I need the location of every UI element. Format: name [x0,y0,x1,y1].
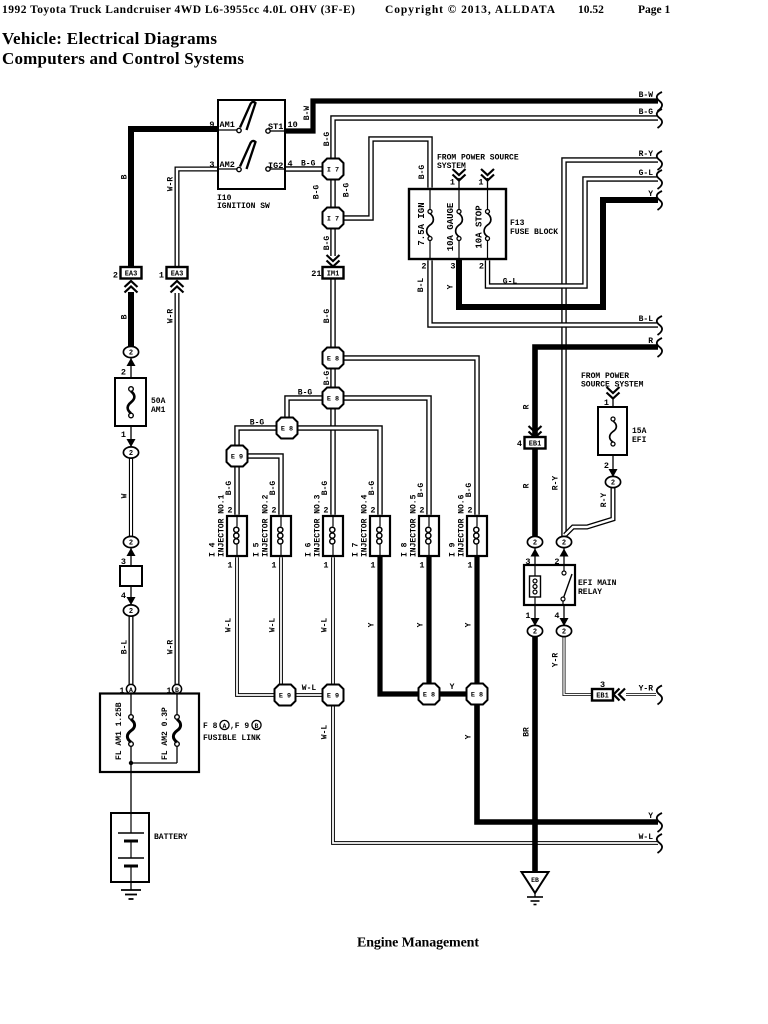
grid connector EB1 upper [525,437,546,449]
bus continuation curl W-L [657,834,662,853]
pin 2 label at INJECTOR NO.5 [419,506,424,516]
pin 1 label below 50A AM1 [121,430,126,440]
fuse 50A AM1 box [115,378,146,426]
wire stub: EFI relay pin 1 [534,605,536,626]
pin 1 label at INJECTOR NO.3 [323,561,328,571]
pin 2 label at INJECTOR NO.6 [467,506,472,516]
wire stub: fuse block feed 10A GAUGE [458,178,460,189]
caption: Engine Management [357,936,479,951]
svg-text:INJECTOR NO.1: INJECTOR NO.1 [218,494,227,557]
pin 1 label at fusible link B [166,686,171,696]
svg-text:B-G: B-G [418,165,427,180]
svg-text:1: 1 [370,561,375,571]
wire BR: EFI relay to ground EB [532,636,538,873]
ground below battery [121,882,141,899]
svg-text:2: 2 [533,540,537,548]
wire W-L: injector No.2 to E9 [279,557,283,685]
label F13 FUSE BLOCK [510,219,558,237]
pin 3 label above junction box [121,557,126,567]
svg-text:B-G: B-G [225,481,234,496]
svg-text:F13: F13 [510,219,525,228]
title: Vehicle Electrical Diagrams [2,29,217,48]
junction dot in fusible link box [129,761,133,765]
svg-text:G-L: G-L [503,278,518,287]
svg-text:2: 2 [113,271,118,281]
svg-text:B: B [255,723,259,730]
wire B-G: ignition IG2 to connector I7 [285,166,323,172]
wire label B-G horizontal at E9 branch [250,419,265,428]
injector INJECTOR NO.6 designator [449,542,458,557]
svg-text:F 8: F 8 [203,722,218,731]
svg-text:SOURCE SYSTEM: SOURCE SYSTEM [581,381,644,390]
wire Y: E8 down to right bus [477,704,658,822]
connector 2 oval at relay pin 4 [556,625,571,636]
svg-text:B-W: B-W [303,106,312,121]
injector INJECTOR NO.1 coil [234,516,239,556]
svg-text:Y: Y [447,284,456,289]
pin 4 label below junction box [121,591,126,601]
svg-text:B-G: B-G [323,236,332,251]
svg-text:EB1: EB1 [596,692,609,700]
svg-text:2: 2 [227,506,232,516]
svg-text:2: 2 [604,461,609,471]
injector INJECTOR NO.6 (I 9) box [467,516,487,556]
arrow up into oval at relay pin 2 [560,549,569,557]
connector I7 upper [323,159,344,180]
injector INJECTOR NO.1 (I 4) box [227,516,247,556]
injector INJECTOR NO.5 coil [426,516,431,556]
wire label B-G E8 to E8 [323,371,332,386]
battery cells [118,813,144,882]
injector INJECTOR NO.6 name label [458,494,467,557]
svg-text:W-L: W-L [269,618,278,633]
svg-text:1: 1 [478,178,483,188]
wire W-L: E9 to right bus [333,705,658,843]
svg-text:EFI: EFI [632,436,647,445]
wire label Y between E8 [450,683,455,692]
svg-text:R: R [648,337,653,346]
wire B-G: IM1 down to E8 [330,279,336,348]
svg-text:1: 1 [467,561,472,571]
svg-text:I 4: I 4 [209,542,218,557]
svg-text:Y: Y [450,683,455,692]
svg-text:W-R: W-R [167,640,176,655]
svg-text:INJECTOR NO.5: INJECTOR NO.5 [410,494,419,557]
pin 4 label at EB1 [517,439,522,449]
wire: fusible link to battery [130,772,132,833]
pin 1 label at INJECTOR NO.5 [419,561,424,571]
injector INJECTOR NO.2 coil [278,516,283,556]
arrow down into oval at relay pin 4 [560,618,569,626]
svg-text:B-G: B-G [639,108,654,117]
wire label B-G horizontal at E8 branch [298,389,313,398]
wire label W-L injector No.1 [225,618,234,633]
wire label W-L injector No.3 [321,618,330,633]
wire label W-R upper [167,177,176,192]
bus label B-G [639,108,654,117]
svg-text:2: 2 [421,262,426,272]
fusible link FL AM1 label [115,702,124,760]
svg-text:Y: Y [417,622,426,627]
svg-text:B-G: B-G [323,309,332,324]
svg-text:1: 1 [271,561,276,571]
arrow chevrons at EB1 lower [614,689,626,701]
pin 4 label below relay [554,611,559,621]
svg-text:I 9: I 9 [449,542,458,557]
junction box [120,566,142,586]
wire label B-G injector No.6 [465,483,474,498]
svg-text:W-R: W-R [167,177,176,192]
wire B-G: E8 left branch to E9 [237,428,276,446]
wire Y: injector No.5 to E8 [426,556,431,684]
wire B-L: fuse 7.5A IGN to right bus [430,260,658,325]
pin 2 label at relay [554,557,559,567]
injector INJECTOR NO.5 designator [401,542,410,557]
wire label Y below fuse [447,284,456,289]
wire stub: junction box bottom [130,586,132,606]
battery box [111,813,149,882]
svg-text:2: 2 [370,506,375,516]
pin 3 label [209,160,214,170]
svg-text:E 8: E 8 [423,691,435,699]
wire label R below EB1 [523,483,532,488]
svg-text:FUSIBLE LINK: FUSIBLE LINK [203,734,261,743]
svg-text:R-Y: R-Y [600,493,609,508]
pin 1 label at INJECTOR NO.1 [227,561,232,571]
label F8 F9 FUSIBLE LINK [203,720,261,743]
svg-text:2: 2 [562,540,566,548]
svg-text:Y: Y [648,190,653,199]
component label I10 IGNITION SW [217,194,270,211]
pin 2 label at INJECTOR NO.3 [323,506,328,516]
wire label B-G IM1 to E8 [323,309,332,324]
pin 1 label at 10A GAUGE [450,178,455,188]
svg-text:E 8: E 8 [327,395,339,403]
wire B: EA3 to 50A AM1 fuse [128,292,134,348]
arrow down into oval below 50A AM1 [127,439,136,447]
ignition switch IG2 contact [266,167,285,171]
arrow up into oval at relay pin 3 [531,549,540,557]
grid connector EA3 right [167,267,188,279]
wire label B-G between I7 right [343,183,352,198]
wire label Y injector No.6 [465,622,474,627]
svg-text:Y-R: Y-R [639,685,654,694]
wire label W-R middle [167,309,176,324]
wire R: right bus down to EFI relay [535,347,658,537]
wire stub: EFI relay pin 4 [563,605,565,626]
ignition switch ST1 contact [266,129,285,133]
connector 2 oval at relay pin 1 [527,625,542,636]
injector INJECTOR NO.4 (I 7) box [370,516,390,556]
svg-text:2: 2 [467,506,472,516]
arrow down into oval below junction [127,597,136,605]
svg-text:1: 1 [121,430,126,440]
svg-text:2: 2 [129,450,133,458]
svg-text:2: 2 [533,629,537,637]
ignition switch AM1 contact [218,102,256,133]
injector INJECTOR NO.6 coil [474,516,479,556]
svg-text:G-L: G-L [639,169,654,178]
wire B-G: E8 right branch to injector No.6 [343,358,477,515]
svg-text:4: 4 [121,591,126,601]
svg-text:I 5: I 5 [253,542,262,557]
svg-text:Computers and Control Systems: Computers and Control Systems [2,49,244,68]
fuse 10A STOP label [475,205,485,249]
connector 2 oval below 15A EFI [605,476,620,487]
wire Y: between E8 connectors [439,691,467,696]
pin 1 label at EA3 [159,271,164,281]
svg-text:BR: BR [523,727,532,737]
wire B-G: E8 right branch to injector No.4 [297,428,381,515]
grid connector EB1 lower [592,689,613,701]
svg-text:Page 1: Page 1 [638,4,671,16]
svg-text:IGNITION SW: IGNITION SW [217,202,270,211]
arrow chevrons at EA3 right [171,281,184,293]
pin 1 label at 10A STOP [478,178,483,188]
wire Y: fuse 10A GAUGE to right bus [459,200,658,307]
pin 1 label at fusible link A [119,686,124,696]
circled pin A [126,684,135,693]
pin 2 label at INJECTOR NO.1 [227,506,232,516]
svg-text:10: 10 [288,120,298,130]
wire B-G: E8 down to injector No.3 [330,408,336,515]
injector INJECTOR NO.2 name label [262,494,271,557]
connector E9 lower-left [275,685,296,706]
injector INJECTOR NO.1 designator [209,542,218,557]
pin 21 label at IM1 [311,269,321,279]
bus continuation curl Y [657,813,662,832]
arrow into EB1 [529,426,542,438]
svg-text:E 9: E 9 [279,692,291,700]
svg-text:Y: Y [465,622,474,627]
svg-text:FL AM2 0.3P: FL AM2 0.3P [161,707,170,760]
header line: vehicle title [2,4,355,16]
feed arrow to 10A STOP [481,169,494,181]
ignition switch I10 box [218,100,285,189]
bus continuation curl B-W [657,92,662,111]
svg-text:W-L: W-L [321,725,330,740]
bus label G-L [639,169,654,178]
svg-text:E 9: E 9 [327,692,339,700]
connector 2 oval above 50A AM1 [123,346,138,357]
svg-text:4: 4 [554,611,559,621]
svg-text:SYSTEM: SYSTEM [437,162,466,171]
pin 3 label below 10A GAUGE [450,262,455,272]
grid connector IM1 [323,267,344,279]
svg-text:2: 2 [323,506,328,516]
svg-text:A: A [223,723,227,730]
bus continuation curl B-L [657,316,662,335]
svg-text:B-G: B-G [298,389,313,398]
svg-text:3: 3 [450,262,455,272]
svg-text:15A: 15A [632,427,647,436]
connector 2 oval below junction [123,605,138,616]
svg-text:IG2: IG2 [268,161,283,171]
connector 2 oval at relay pin 2 [556,536,571,547]
bus continuation curl Y [657,191,662,210]
svg-text:INJECTOR NO.3: INJECTOR NO.3 [314,494,323,557]
wire W-R: EA3 down to fusible link pin B [175,293,180,685]
fusible link FL AM1 element [127,693,134,772]
svg-text:EA3: EA3 [125,270,138,278]
bus label W-L [639,833,654,842]
svg-text:B-L: B-L [639,315,654,324]
svg-text:W-L: W-L [302,684,317,693]
svg-text:B-G: B-G [269,481,278,496]
wire label Y below E8 [465,734,474,739]
fuse 10A GAUGE label [446,202,456,251]
svg-text:10.52: 10.52 [578,4,604,16]
wire stub: 15A EFI top [612,398,614,407]
wire G-L: fuse 10A STOP to right bus [488,179,659,286]
fusible link FL AM2 label [161,707,170,760]
terminal IG2 label [268,161,283,171]
svg-text:3: 3 [209,160,214,170]
pin 3 label at relay [525,557,530,567]
svg-text:1992 Toyota Truck Landcruiser: 1992 Toyota Truck Landcruiser 4WD L6-395… [2,4,355,16]
svg-text:B: B [121,174,130,179]
svg-text:Y: Y [648,812,653,821]
svg-text:2: 2 [611,480,615,488]
injector INJECTOR NO.2 (I 5) box [271,516,291,556]
svg-text:EFI MAIN: EFI MAIN [578,579,617,588]
connector E8 lower-right [467,684,488,705]
feed arrow to 15A EFI [607,387,620,399]
label EFI MAIN RELAY [578,579,617,597]
arrow chevrons at EA3 left [125,281,138,293]
wire B-G: E8 left branch down to E8 [287,398,323,418]
EFI main relay box [524,565,575,605]
injector INJECTOR NO.3 coil [330,516,335,556]
svg-text:B-G: B-G [417,483,426,498]
bus label R-Y [639,150,654,159]
injector INJECTOR NO.3 designator [305,542,314,557]
wire stub: junction box top [130,547,132,566]
svg-text:W-L: W-L [321,618,330,633]
arrow up into oval above 50A AM1 [127,358,136,366]
fuse 50A AM1 element [128,387,135,418]
wire label R-Y long vertical [552,476,561,491]
EFI main relay switch [561,565,572,605]
svg-text:R-Y: R-Y [552,476,561,491]
svg-text:I 7: I 7 [327,215,339,223]
wire label B-W vertical [303,106,312,121]
wire Y-R: EFI relay to EB1 [564,636,592,695]
svg-text:EB1: EB1 [529,440,542,448]
label FROM POWER SOURCE SYSTEM at 15A EFI [581,372,644,390]
wire label W-L below E9 [321,725,330,740]
svg-text:2: 2 [271,506,276,516]
label 15A EFI [632,427,647,445]
wire Y: injector No.4 to E8 [380,556,419,694]
fuse 15A EFI element [610,417,617,446]
fuse 10A STOP [487,189,489,259]
pin 2 label at INJECTOR NO.2 [271,506,276,516]
svg-text:R: R [523,404,532,409]
svg-text:FUSE BLOCK: FUSE BLOCK [510,228,558,237]
pin 2 label above 50A AM1 [121,368,126,378]
wire W-L: between E9 connectors [295,693,323,697]
svg-text:B-G: B-G [321,481,330,496]
svg-text:4: 4 [288,159,293,169]
svg-text:1: 1 [525,611,530,621]
svg-text:2: 2 [129,608,133,616]
pin 1 label at INJECTOR NO.6 [467,561,472,571]
pin 2 label below 10A STOP [479,262,484,272]
fuse 10A GAUGE [458,189,460,259]
wire label B-G injector No.5 [417,483,426,498]
injector INJECTOR NO.4 name label [361,494,370,557]
bus continuation curl Y-R [657,686,662,705]
wire B-G: E8 right branch to injector No.5 [343,398,429,515]
connector E9 lower-right [323,685,344,706]
wire W-R: ignition AM2 to connector EA3 [177,169,218,268]
svg-text:1: 1 [323,561,328,571]
bus label Y [648,190,653,199]
wire stub: 50A AM1 bottom [130,426,132,448]
wire Y: injector No.6 to E8 [474,556,479,684]
wire stub: 50A AM1 top [130,357,132,378]
wire label B-G injector No.1 [225,481,234,496]
svg-text:B-G: B-G [313,185,322,200]
svg-text:RELAY: RELAY [578,588,602,597]
svg-text:2: 2 [129,350,133,358]
connector E9 upper [227,446,248,467]
svg-text:21: 21 [311,269,321,279]
svg-text:I 8: I 8 [401,542,410,557]
svg-text:R: R [523,483,532,488]
pin 2 label at EA3 [113,271,118,281]
wire label B lower [121,314,130,319]
svg-text:E 8: E 8 [327,355,339,363]
svg-text:1: 1 [450,178,455,188]
bus continuation curl B-G [657,109,662,128]
injector INJECTOR NO.3 (I 6) box [323,516,343,556]
pin 1 label at 15A EFI [604,398,609,408]
pin 3 label at EB1 lower [600,680,605,690]
wire label Y injector No.4 [368,622,377,627]
wire Y-R: EB1 to right bus [626,693,656,696]
wire label B-L left chain [121,640,130,655]
wire stub: fuse block feed 10A STOP [487,178,489,189]
svg-text:1: 1 [419,561,424,571]
wire label B-G below I7 [323,236,332,251]
svg-text:7.5A IGN: 7.5A IGN [417,202,427,245]
wire label B-G at IG2 [301,160,316,169]
wire label W-R lower [167,640,176,655]
pin 1 label at INJECTOR NO.4 [370,561,375,571]
svg-text:I 6: I 6 [305,542,314,557]
label BATTERY [154,833,188,842]
svg-text:B-G: B-G [465,483,474,498]
terminal AM1 label [220,120,235,130]
injector INJECTOR NO.1 name label [218,494,227,557]
wire label B-G injector No.3 [321,481,330,496]
grid connector EA3 left [121,267,142,279]
wire W-L: injector No.1 to E9 [237,557,275,695]
terminal ST1 label [268,122,283,132]
svg-text:INJECTOR NO.2: INJECTOR NO.2 [262,494,271,557]
bus label B-L [639,315,654,324]
circled pin B [172,684,181,693]
fuse block F13 box [409,189,506,259]
wire B-G: E9 right branch to injector No.2 [248,456,282,515]
wire W-L: injector No.3 to E9 [331,557,335,685]
svg-text:2: 2 [479,262,484,272]
svg-text:E 8: E 8 [281,425,293,433]
wire label R-Y at 15A EFI [600,493,609,508]
svg-text:W-L: W-L [225,618,234,633]
